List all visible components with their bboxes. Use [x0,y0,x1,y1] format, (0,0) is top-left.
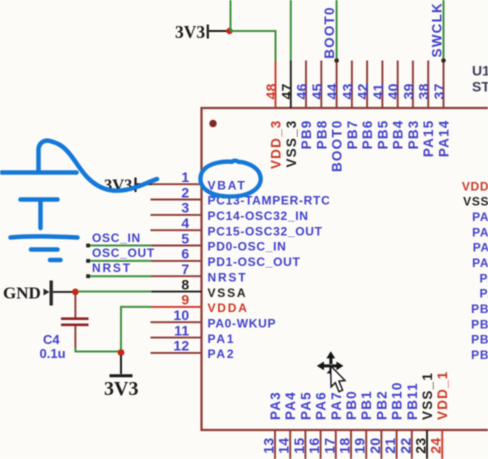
pin 17 (PA7) stub [335,430,337,459]
IC U1 body: STM32 MCU rectangle (right side off-canvas) [202,108,488,430]
pin 8 number [181,276,189,292]
pin 37 name PA14 [437,120,452,158]
svg-text:PB12: PB12 [471,348,488,362]
svg-text:U1: U1 [472,63,488,79]
pin 16 number [306,438,322,454]
pin 1 number [181,169,189,185]
pin 40 number [385,83,401,99]
svg-text:PA5: PA5 [298,391,313,420]
hand-drawn stem to ground [38,202,43,228]
pin 4 number [181,215,189,231]
svg-text:NRST: NRST [208,270,248,284]
right-side pin name PA10 (clipped) [472,256,488,270]
pin 47 number [278,83,294,99]
pin 44 number [324,83,340,99]
pin 39 number [400,83,416,99]
svg-text:PB14: PB14 [471,317,488,331]
pin 44 (BOOT0) stub [336,61,338,109]
pin 43 (PB7) stub [351,61,353,109]
capacitor C4 bottom lead [74,326,76,349]
pin 5 number [181,230,189,246]
svg-text:13: 13 [261,438,277,454]
pin 20 number [367,438,383,454]
pin 23 number [413,438,429,454]
svg-text:PB8: PB8 [314,120,329,150]
svg-text:PC15-OSC32_OUT: PC15-OSC32_OUT [208,224,323,238]
svg-text:VSS_1: VSS_1 [420,372,435,420]
node junction at 3V3 top [226,28,232,34]
svg-text:PB10: PB10 [390,381,405,420]
pin 9 name VDDA [208,301,249,315]
svg-text:20: 20 [367,438,383,454]
pin 14 name PA4 [283,391,298,420]
svg-text:11: 11 [174,322,189,338]
svg-text:PA12: PA12 [472,225,488,239]
wire SWCLK net to pin 37 [443,0,445,60]
pin 46 name PB9 [299,120,314,150]
pin 37 (PA14) stub [443,61,445,109]
svg-text:PB13: PB13 [471,333,488,347]
pin 7 (NRST) stub [151,275,202,277]
pin 19 (PB1) stub [365,430,367,459]
svg-text:BOOT0: BOOT0 [322,6,337,59]
pin 16 name PA6 [314,391,329,420]
pin 17 number [321,438,337,454]
U1 reference designator [472,63,488,79]
net label SWCLK [430,2,445,58]
svg-text:VDD_2: VDD_2 [462,179,488,193]
capacitor C4 top lead [74,295,76,318]
pin 15 number [291,438,307,454]
svg-text:PD1-OSC_OUT: PD1-OSC_OUT [208,255,301,269]
wire junction to pin 8 (VSSA) [78,291,152,293]
mouse move cursor [317,351,345,392]
svg-text:15: 15 [291,438,307,454]
pin 22 (PB11) stub [411,430,413,459]
right-side pin name VSS_2 (clipped) [463,195,488,209]
svg-text:PA3: PA3 [268,391,283,420]
svg-text:PC14-OSC32_IN: PC14-OSC32_IN [208,209,309,223]
pin 43 number [339,83,355,99]
pin 46 number [294,83,310,99]
wire OSC_IN to pin [86,244,151,248]
pin 7 number [181,261,189,277]
svg-text:42: 42 [355,83,371,99]
svg-text:16: 16 [306,438,322,454]
pin 6 (PD1-OSC_OUT) stub [151,260,202,262]
pin 22 name PB11 [405,382,420,420]
pin 10 (PA0-WKUP) stub [151,321,202,323]
svg-text:ST: ST [472,79,488,95]
pin 37 number [431,83,447,99]
svg-text:47: 47 [278,83,294,99]
node junction GND/C4/pin8 [72,289,79,296]
hand-drawn battery symbol: long plate [2,170,77,175]
pin 8 name VSSA [208,286,248,300]
svg-text:VSS_2: VSS_2 [463,195,488,209]
supply symbol 3V3 (top) [175,22,208,42]
svg-text:VBAT: VBAT [208,178,247,192]
pin 3 name PC14-OSC32_IN [208,209,309,223]
pin 21 number [382,438,398,454]
svg-text:12: 12 [173,338,189,354]
wire 3V3 net from top edge down to junction [230,0,232,31]
pin 12 name PA2 [208,347,236,361]
svg-text:PA7: PA7 [329,391,344,420]
wire OSC_OUT to pin [86,259,151,263]
svg-text:PD0-OSC_IN: PD0-OSC_IN [208,240,287,254]
pin 11 (PA1) stub [151,337,202,339]
svg-text:PB3: PB3 [406,120,421,150]
pin 6 number [181,246,189,262]
pin 24 number [428,438,444,454]
pin 2 number [181,184,189,200]
wire 3V3 bar to junction [209,30,227,32]
pin 41 name PB5 [375,120,390,150]
svg-text:PB11: PB11 [405,382,420,420]
pin 10 number [173,307,189,323]
svg-text:PA9: PA9 [479,271,488,285]
pin 1 (VBAT) stub [151,183,202,185]
pin 23 name VSS_1 [420,372,435,420]
svg-text:3: 3 [181,200,189,216]
svg-text:PA0-WKUP: PA0-WKUP [208,316,277,330]
pin 19 number [352,438,368,454]
pin 48 (VDD_3) stub [275,61,277,109]
pin 42 name PB6 [360,120,375,150]
net label BOOT0 [322,6,337,59]
pin 39 (PB3) stub [412,61,414,109]
svg-text:PB4: PB4 [391,120,406,150]
right-side pin name PB14 (clipped) [471,317,488,331]
svg-text:NRST: NRST [92,261,132,275]
svg-text:PB5: PB5 [375,120,390,150]
svg-text:23: 23 [413,438,429,454]
pin 42 (PB6) stub [366,61,368,109]
pin 12 (PA2) stub [151,352,202,354]
svg-text:PA13: PA13 [472,210,488,224]
pin 41 (PB5) stub [381,61,383,109]
right-side pin name PA11 (clipped) [473,241,488,255]
pin 3 number [181,200,189,216]
svg-text:PB9: PB9 [299,120,314,150]
svg-text:C4: C4 [43,332,60,347]
svg-text:PA15: PA15 [421,120,436,158]
svg-text:43: 43 [339,83,355,99]
pin 19 name PB1 [359,390,374,420]
pin 15 (PA5) stub [304,430,306,459]
pin 8 (VSSA) stub [151,291,202,293]
svg-text:9: 9 [181,292,189,308]
svg-text:19: 19 [352,438,368,454]
hand-drawn ground line 2 [31,247,58,252]
svg-text:5: 5 [181,230,189,246]
pin 44 name BOOT0 [330,120,345,173]
svg-text:46: 46 [294,83,310,99]
pin 38 number [416,83,432,99]
pin 21 (PB10) stub [396,430,398,459]
wire NRST to pin [86,274,151,278]
pin 2 name PC13-TAMPER-RTC [208,194,331,208]
svg-text:PA2: PA2 [208,347,236,361]
net label NRST [92,261,132,275]
pin 47 name VSS_3 [284,120,299,168]
pin 12 number [173,338,189,354]
pin 24 name VDD_1 [435,370,450,420]
pin 41 number [370,83,386,99]
pin 21 name PB10 [390,381,405,420]
pin 4 (PC15-OSC32_OUT) stub [151,229,202,231]
svg-text:PB6: PB6 [360,120,375,150]
svg-text:GND: GND [3,284,41,303]
wire BOOT0 net to pin 44 [336,0,338,60]
pin 39 name PB3 [406,120,421,150]
pin 1 name VBAT [208,178,247,192]
pin 17 name PA7 [329,391,344,420]
svg-text:1: 1 [181,169,189,185]
svg-text:2: 2 [181,184,189,200]
svg-text:4: 4 [181,215,189,231]
right-side pin name PB15 (clipped) [471,302,488,316]
svg-text:VDDA: VDDA [208,301,249,315]
pin 45 number [309,83,325,99]
svg-text:0.1u: 0.1u [40,346,66,361]
svg-text:VDD_3: VDD_3 [269,120,284,170]
svg-text:37: 37 [431,83,447,99]
svg-text:41: 41 [370,83,386,99]
net label OSC_IN [92,231,141,245]
svg-text:PA4: PA4 [283,391,298,420]
svg-text:PA14: PA14 [437,120,452,158]
pin 11 name PA1 [208,332,236,346]
svg-text:PB0: PB0 [344,390,359,420]
pin 2 (PC13-TAMPER-RTC) stub [151,199,202,201]
svg-text:VDD_1: VDD_1 [435,370,450,420]
svg-text:40: 40 [385,83,401,99]
ground symbol GND [3,281,53,306]
pin 20 name PB2 [374,390,389,420]
hand-drawn battery short plate [21,197,58,202]
right-side pin name VDD_2 (clipped) [462,179,488,193]
svg-text:14: 14 [276,438,292,454]
pin 11 number [174,322,189,338]
right-side pin name PB12 (clipped) [471,348,488,362]
wire junction to pin 48 (horizontal then down) [231,31,276,61]
wire junction up and to pin 9 (VDDA) [121,307,152,350]
svg-text:PB15: PB15 [471,302,488,316]
pin 15 name PA5 [298,391,313,420]
pin 13 number [261,438,277,454]
pin 24 (VDD_1) stub [441,430,443,459]
hand-drawn ellipse around VBAT [200,161,260,199]
svg-text:8: 8 [181,276,189,292]
label C4 [43,332,60,347]
svg-text:38: 38 [416,83,432,99]
svg-text:PA6: PA6 [314,391,329,420]
pin 38 name PA15 [421,120,436,158]
svg-text:3V3: 3V3 [104,378,138,400]
pin 45 name PB8 [314,120,329,150]
pin 18 name PB0 [344,390,359,420]
svg-text:6: 6 [181,246,189,262]
pin 23 (VSS_1) stub [426,430,428,459]
U1 pin-1 indicator dot [209,120,216,127]
pin 40 (PB4) stub [397,61,399,109]
pin 47 (VSS_3) stub [290,61,292,109]
svg-text:44: 44 [324,83,340,99]
right-side pin name PA9 (clipped) [479,271,488,285]
svg-text:PB1: PB1 [359,390,374,420]
wire 3V3 to pin 1 [137,183,152,185]
pin 13 name PA3 [268,391,283,420]
svg-text:10: 10 [173,307,189,323]
pin 40 name PB4 [391,120,406,150]
U1 value STM32... (clipped) [472,79,488,95]
svg-text:3V3: 3V3 [175,22,205,42]
svg-text:BOOT0: BOOT0 [330,120,345,173]
pin 48 number [263,83,279,99]
value 0.1u [40,346,66,361]
pin 5 name PD0-OSC_IN [208,240,287,254]
net label OSC_OUT [92,246,155,260]
pin 10 name PA0-WKUP [208,316,277,330]
svg-text:VSS_3: VSS_3 [284,120,299,168]
supply symbol 3V3 at pin 1 [104,176,136,195]
svg-text:OSC_OUT: OSC_OUT [92,246,155,260]
pin 48 name VDD_3 [269,120,284,170]
svg-text:OSC_IN: OSC_IN [92,231,141,245]
svg-text:45: 45 [309,83,325,99]
pin 7 name NRST [208,270,248,284]
pin 3 (PC14-OSC32_IN) stub [151,214,202,216]
svg-text:VSSA: VSSA [208,286,248,300]
pin 9 (VDDA) stub [151,306,202,308]
pin 14 (PA4) stub [289,430,291,459]
svg-text:PA10: PA10 [472,256,488,270]
pin 20 (PB2) stub [380,430,382,459]
pin 38 (PA15) stub [427,61,429,109]
capacitor C4 plates [61,319,89,325]
pin 13 (PA3) stub [274,430,276,459]
svg-text:17: 17 [321,438,337,454]
right-side pin name PB13 (clipped) [471,333,488,347]
svg-text:7: 7 [181,261,189,277]
pin 18 (PB0) stub [350,430,352,459]
svg-text:22: 22 [397,438,413,454]
pin 45 (PB8) stub [320,61,322,109]
wire C4 bottom to junction [75,348,118,352]
hand-drawn battery stem + squiggle to 3V3 [39,141,158,191]
svg-text:SWCLK: SWCLK [430,2,445,58]
pin 4 name PC15-OSC32_OUT [208,224,323,238]
right-side pin name PA12 (clipped) [472,225,488,239]
pin 14 number [276,438,292,454]
right-side pin name PA13 (clipped) [472,210,488,224]
pin 18 number [337,438,353,454]
pin 9 number [181,292,189,308]
node dot at pin 44 top [334,58,339,63]
node junction 3V3/VDDA [118,349,125,356]
pin 16 (PA6) stub [320,430,322,459]
svg-text:PA11: PA11 [473,241,488,255]
svg-text:39: 39 [400,83,416,99]
wire VSS_3 net from top edge to pin 47 [290,0,292,61]
pin 6 name PD1-OSC_OUT [208,255,301,269]
svg-text:PA8: PA8 [479,287,488,301]
svg-text:PA1: PA1 [208,332,236,346]
svg-text:48: 48 [263,83,279,99]
svg-text:21: 21 [382,438,398,454]
pin 43 name PB7 [345,120,360,150]
hand-drawn ground line 1 [11,236,78,237]
pin 22 number [397,438,413,454]
supply symbol 3V3 (bottom) [104,356,138,401]
pin 5 (PD0-OSC_IN) stub [151,245,202,247]
pin 46 (PB9) stub [305,61,307,109]
wire GND to junction [53,291,73,293]
svg-text:PB7: PB7 [345,120,360,150]
hand-drawn ground line 3 [50,258,61,263]
svg-text:24: 24 [428,438,444,454]
right-side pin name PA8 (clipped) [479,287,488,301]
svg-text:18: 18 [337,438,353,454]
svg-text:PB2: PB2 [374,390,389,420]
node dot at pin 37 top [441,58,446,63]
pin 42 number [355,83,371,99]
